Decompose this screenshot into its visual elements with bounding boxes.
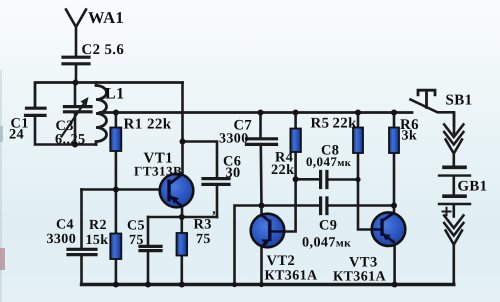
svg-text:КТ361А: КТ361А (265, 268, 318, 283)
node R5/C8 (355, 177, 360, 182)
capacitor C2 (63, 57, 89, 64)
node VT2 emitter / C7 / C9 (259, 203, 265, 209)
battery GB1 cell2 long plate (439, 203, 470, 205)
transistor VT1 (160, 174, 194, 208)
wire C3 bottom lead (74, 113, 77, 145)
wire VT1 base (82, 188, 161, 191)
transistor VT3 (372, 212, 406, 246)
wire C9 right lead (327, 204, 394, 207)
svg-text:R2: R2 (89, 218, 107, 233)
wire C4 bottom lead (80, 255, 83, 284)
svg-text:3300: 3300 (219, 132, 249, 147)
capacitor C4 (68, 249, 96, 254)
node C3 bottom on tank rail (72, 142, 78, 148)
node R3 on bottom rail (179, 282, 185, 288)
svg-text:75: 75 (196, 232, 211, 247)
transistor VT2 (251, 214, 285, 248)
svg-text:15k: 15k (86, 233, 109, 248)
wire C5 bottom lead (147, 251, 150, 284)
node R1 top on mid rail (113, 110, 119, 116)
node R6 top on mid rail (391, 110, 397, 116)
junction node dots (72, 80, 398, 288)
node R4/C8 (293, 176, 299, 182)
svg-text:SB1: SB1 (446, 93, 473, 109)
left edge smudge (0, 248, 5, 270)
node R5 top on mid rail (355, 110, 361, 116)
node R6/C9/VT3 (391, 203, 397, 209)
wire C9 left lead (262, 204, 321, 207)
battery GB1 cell2 short plate (444, 194, 465, 198)
wire VT1 collector line (181, 83, 184, 174)
svg-text:WA1: WA1 (88, 8, 124, 27)
svg-text:C5: C5 (127, 219, 145, 234)
capacitor C5 (140, 246, 161, 250)
svg-text:GB1: GB1 (458, 179, 488, 195)
wire C4 top branch (80, 190, 83, 249)
wire VT3 collector lead (393, 246, 396, 285)
svg-text:5.6: 5.6 (105, 42, 125, 58)
node R4 top on mid rail (293, 110, 299, 116)
wire VT1 emitter lead (181, 208, 184, 218)
wire R6 bottom lead to VT3 (393, 153, 396, 213)
svg-text:22k: 22k (271, 162, 294, 178)
svg-text:VT3: VT3 (349, 254, 378, 270)
svg-text:R1: R1 (124, 117, 143, 133)
svg-text:VT2: VT2 (267, 253, 296, 269)
svg-text:’: ’ (212, 210, 217, 225)
node VT3 collector on bottom rail (392, 282, 398, 288)
node ground branch on bottom rail (232, 282, 237, 287)
wire R3 bottom lead (181, 255, 184, 285)
inductor L1 (96, 83, 107, 145)
wire VT1 emitter rail (148, 216, 217, 219)
battery GB1 middle stem (452, 177, 455, 195)
left edge smudge 2 (0, 126, 3, 142)
battery GB1 cell1 long plate (439, 174, 470, 176)
capacitor C9 (321, 198, 327, 214)
wire mid rail (coil tap to SB1) (100, 111, 412, 114)
capacitor C1 (26, 108, 46, 115)
capacitor C3 (65, 107, 92, 112)
svg-text:R3: R3 (194, 216, 212, 232)
node C7 top on mid rail (258, 110, 264, 116)
switch SB1 lever (411, 100, 455, 127)
wire C6 branch from collector (183, 142, 218, 179)
capacitor C7 (247, 139, 277, 145)
svg-text:6..25: 6..25 (55, 132, 86, 148)
switch SB1 plunger (418, 90, 435, 107)
wire top rail (35, 83, 183, 108)
svg-text:C4: C4 (56, 218, 74, 233)
battery GB1 bottom stem (452, 205, 455, 217)
battery GB1 plus sign (443, 208, 451, 215)
wire R2 top lead (115, 190, 118, 234)
node VT1 base / R1-R2 (113, 187, 119, 193)
wire R5 bottom lead to VT3 base (358, 153, 372, 230)
wire R4 bottom lead to VT2 base (284, 152, 296, 232)
battery GB1 cell1 short plate (444, 166, 465, 170)
svg-text:24: 24 (9, 126, 24, 142)
svg-text:0,047мк: 0,047мк (302, 234, 351, 250)
wire R4 top lead (294, 113, 297, 129)
node VT1 emitter (179, 214, 185, 220)
svg-text:22k: 22k (147, 117, 172, 133)
svg-text:30: 30 (226, 165, 241, 181)
wire C8 right lead (327, 178, 358, 181)
wire C5 top lead (147, 217, 150, 246)
svg-text:L1: L1 (105, 86, 124, 103)
node R2 on bottom rail (113, 282, 119, 288)
svg-text:КТ361А: КТ361А (333, 269, 386, 284)
resistor R1 (110, 128, 121, 152)
wire C8 left lead (296, 178, 321, 181)
svg-text:ГТ313В: ГТ313В (134, 163, 182, 178)
wire R3 top lead (181, 217, 184, 233)
resistor R3 (177, 233, 188, 256)
node C5 on bottom rail (145, 282, 151, 288)
left edge shadow (0, 70, 2, 302)
wire R1 bottom lead (115, 151, 118, 190)
connector X1 chevrons (444, 112, 463, 166)
wire R5 top lead (357, 113, 360, 128)
svg-text:R5: R5 (311, 115, 330, 131)
wire C1 to tank bottom rail (35, 116, 96, 145)
resistor R4 (290, 129, 301, 153)
wire C2 to top rail (75, 65, 78, 83)
arrowhead of C3 arrow (81, 97, 89, 106)
wire R2 bottom lead (115, 259, 118, 285)
wire C7 bottom lead to VT2 (259, 145, 262, 215)
connector X2 chevrons (444, 216, 463, 285)
node VT1 collector / C6 (180, 139, 186, 145)
resistor R6 (389, 128, 399, 154)
svg-text:75: 75 (129, 233, 144, 248)
capacitor C6 (203, 179, 229, 185)
node antenna/C3 on top rail (73, 80, 79, 86)
svg-text:C9: C9 (319, 217, 337, 233)
wire C7 top lead (259, 113, 262, 139)
wire bottom rail (82, 283, 454, 286)
svg-text:3300: 3300 (47, 232, 77, 247)
resistor R2 (110, 234, 121, 260)
svg-text:22k: 22k (333, 115, 358, 131)
svg-text:C2: C2 (82, 42, 101, 58)
wire C6 bottom lead (216, 185, 219, 217)
resistor R5 (353, 128, 363, 154)
wire R6 top lead (393, 113, 396, 128)
wire R1 top lead (115, 113, 118, 128)
wire C3 top lead (74, 83, 77, 107)
wire VT2 collector lead (260, 247, 263, 285)
arrow of variable capacitor C3 (62, 101, 87, 137)
node VT2 collector on bottom rail (259, 282, 264, 287)
antenna WA1 (66, 10, 86, 57)
capacitor C8 (321, 172, 327, 188)
wire VT2 left ground branch (235, 206, 262, 285)
svg-text:3k: 3k (402, 129, 418, 144)
